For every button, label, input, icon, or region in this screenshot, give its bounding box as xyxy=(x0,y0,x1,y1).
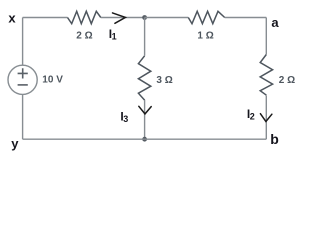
svg-text:y: y xyxy=(11,136,19,151)
wire: middle lower vertical (R4 to bottom junction) xyxy=(144,100,146,139)
svg-text:x: x xyxy=(8,10,16,25)
svg-text:3 Ω: 3 Ω xyxy=(156,75,172,86)
label I1 xyxy=(109,27,117,42)
wire: left lower vertical (source to node y) xyxy=(22,94,24,139)
svg-text:b: b xyxy=(270,131,279,147)
resistor R4 3Ω (middle branch, vertical zigzag) xyxy=(138,56,150,100)
wire: top middle (R1 to junction) xyxy=(101,17,145,19)
svg-text:2: 2 xyxy=(250,112,255,122)
resistor R2 1Ω (top right, horizontal zigzag) xyxy=(188,11,224,23)
wire: R2 to node a xyxy=(225,17,267,19)
wire: bottom right horizontal (bottom junction to node b) xyxy=(145,138,267,140)
svg-text:3: 3 xyxy=(123,114,128,124)
svg-text:a: a xyxy=(271,15,279,30)
wire: right lower vertical (R3 to node b) xyxy=(265,96,267,140)
wire: right upper vertical (node a to R3) xyxy=(265,18,267,55)
voltage source V1 (circle with + and -) xyxy=(8,65,37,94)
svg-text:2 Ω: 2 Ω xyxy=(76,31,92,42)
current arrow I1 (pointing right) xyxy=(113,13,126,23)
current arrow I2 (pointing down) xyxy=(260,114,272,122)
wire: bottom left horizontal (node y to bottom junction) xyxy=(23,138,145,140)
svg-text:1: 1 xyxy=(112,31,117,41)
resistor R1 2Ω (top left, horizontal zigzag) xyxy=(68,11,101,23)
svg-text:10 V: 10 V xyxy=(42,75,63,86)
label I2 xyxy=(247,107,255,122)
svg-text:2 Ω: 2 Ω xyxy=(279,75,295,86)
wire: top right (junction to R2) xyxy=(145,17,189,19)
junction node (bottom middle) xyxy=(142,137,147,142)
resistor R3 2Ω (right side, vertical zigzag) xyxy=(260,55,272,96)
svg-text:1 Ω: 1 Ω xyxy=(197,31,213,42)
junction node (top middle) xyxy=(142,15,147,20)
label I3 xyxy=(120,110,128,125)
wire: top-left horizontal (node x to R1) xyxy=(23,17,68,19)
wire: middle upper vertical (top junction to R4) xyxy=(144,18,146,56)
wire: left upper vertical (node x to source) xyxy=(22,18,24,66)
current arrow I3 (pointing down) xyxy=(139,106,151,114)
